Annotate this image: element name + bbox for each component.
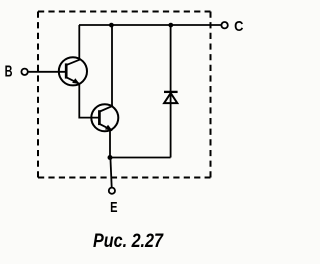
svg-text:B: B [5,63,13,80]
svg-text:C: C [234,19,244,35]
svg-text:E: E [110,200,117,216]
svg-text:Рис. 2.27: Рис. 2.27 [93,230,164,252]
